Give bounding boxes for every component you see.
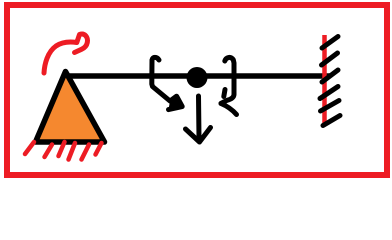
force arrow F (186, 96, 211, 142)
right release arrow (221, 57, 237, 114)
moment arrow M (44, 34, 87, 73)
beam (64, 73, 330, 79)
pin support hatching (25, 142, 102, 160)
pin support A (36, 72, 105, 143)
fixed wall support (322, 35, 327, 124)
left release arrow (152, 57, 182, 109)
wall hatching (320, 37, 340, 126)
hinge node B (187, 67, 208, 88)
